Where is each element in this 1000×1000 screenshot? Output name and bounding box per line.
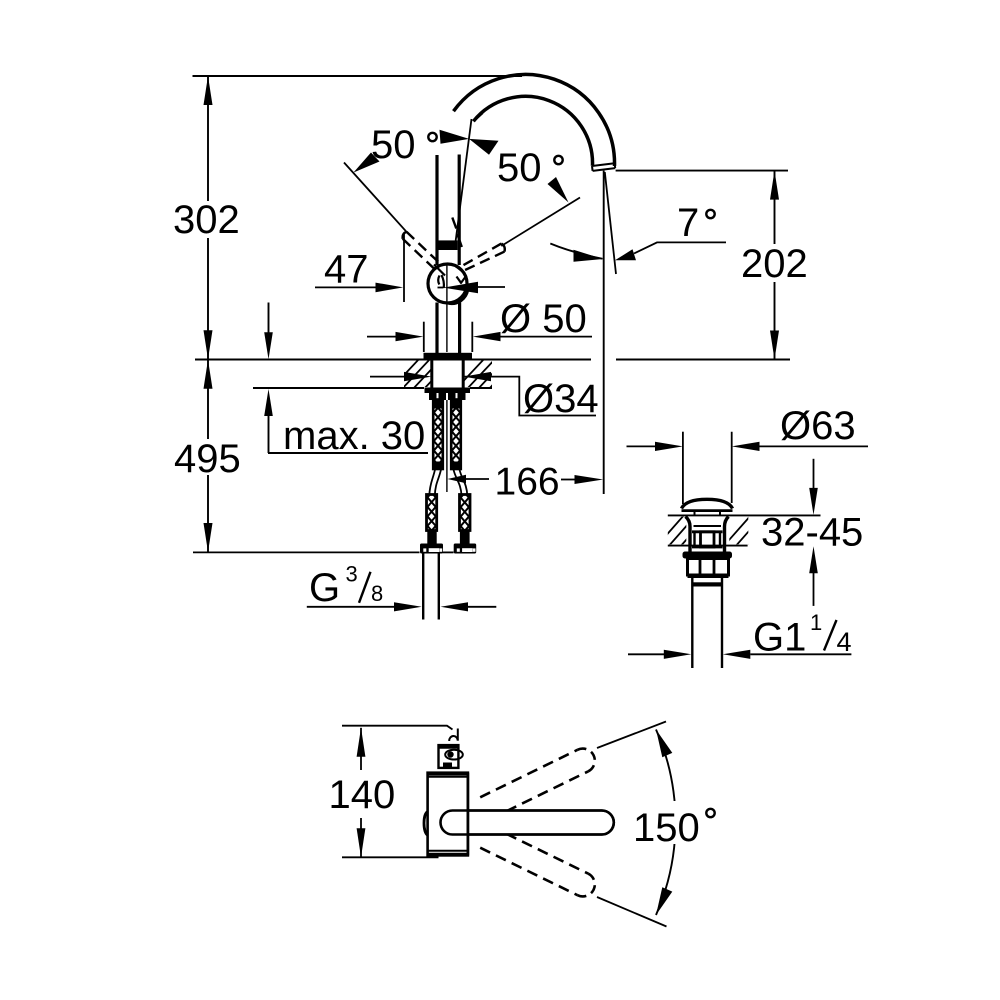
- svg-text:7: 7: [677, 201, 699, 245]
- arrow 495 top at deck: [204, 360, 213, 389]
- PLAN VIEW: [329, 722, 723, 927]
- stream 7deg tilted line: [605, 172, 616, 274]
- dim 140 top ref: [342, 726, 453, 730]
- svg-text:202: 202: [741, 242, 808, 286]
- column body: [435, 303, 438, 354]
- mounting washer: [425, 388, 471, 394]
- braided hose right: [458, 475, 473, 558]
- drain tailpiece: [691, 578, 693, 668]
- shank through deck: [430, 360, 433, 388]
- center line below: [446, 400, 448, 492]
- spout outer arc: [454, 74, 615, 166]
- upper dashed spout: [480, 750, 577, 798]
- svg-text:302: 302: [173, 198, 240, 242]
- label 150deg: [630, 801, 722, 844]
- svg-text:150: 150: [633, 806, 700, 850]
- svg-text:8: 8: [371, 581, 383, 606]
- left bump: [424, 812, 428, 836]
- lower dashed spout: [480, 848, 577, 896]
- small dashes near lever (tilted position hints): [452, 218, 456, 229]
- spout outlet face: [592, 163, 615, 171]
- dim G3/8: [307, 606, 395, 608]
- hose curve right: [454, 470, 462, 496]
- drain locknut: [683, 552, 733, 559]
- lever solid: [435, 155, 438, 265]
- label max.30 underline: [268, 452, 428, 454]
- svg-text:Ø 50: Ø 50: [500, 297, 587, 341]
- fitting nut left: [427, 531, 436, 544]
- dim 140 vertical: [360, 728, 362, 770]
- base plinth: [424, 353, 473, 360]
- swing arc with arrow: [550, 244, 602, 259]
- angle ray right (50deg): [501, 198, 580, 247]
- sink deck lines: [668, 514, 821, 516]
- angle ray left (50deg): [344, 163, 407, 232]
- dim 202 vertical: [774, 171, 776, 244]
- svg-text:1: 1: [810, 610, 822, 635]
- deck top line: [195, 359, 591, 361]
- lever box: [439, 745, 459, 768]
- ball lower-right swoosh: [449, 290, 468, 304]
- svg-text:495: 495: [174, 437, 241, 481]
- ball joint: [428, 264, 467, 303]
- drain cap dome: [682, 499, 733, 508]
- ball interior details: [434, 265, 467, 289]
- deck bottom line: [253, 387, 424, 389]
- svg-text:G: G: [309, 566, 340, 610]
- svg-text:140: 140: [329, 773, 396, 817]
- dim 32-45: [813, 459, 815, 488]
- svg-text:Ø34: Ø34: [523, 377, 599, 421]
- dim D63: [627, 445, 656, 447]
- spout inner arc: [473, 96, 592, 165]
- swing ray lower: [597, 897, 667, 927]
- leader D34: [464, 377, 596, 416]
- svg-text:Ø63: Ø63: [780, 404, 856, 448]
- dim D50 arrows: [367, 336, 396, 338]
- center line: [446, 263, 448, 352]
- svg-text:G1: G1: [753, 616, 806, 660]
- braided hose left: [425, 475, 439, 558]
- svg-text:32-45: 32-45: [761, 511, 863, 555]
- lever dashed right position: [457, 244, 505, 274]
- dim max.30 upper arrow: [268, 303, 270, 337]
- arrow 302 bottom at deck: [204, 330, 213, 359]
- supply tube: [422, 552, 424, 619]
- threaded rod right: [449, 381, 463, 501]
- lever dashed left position: [403, 232, 449, 273]
- bowtie arrows at L2: [440, 130, 470, 144]
- lower dashed end cap: [578, 874, 595, 897]
- lever hook: [449, 736, 458, 741]
- D63 extension lines: [682, 432, 684, 504]
- svg-text:50: 50: [371, 123, 416, 167]
- swing arc 150deg: [656, 730, 676, 916]
- dim G1 1/4: [628, 653, 666, 655]
- thin reference line L2: [456, 119, 472, 242]
- svg-text:max. 30: max. 30: [283, 414, 425, 458]
- hose curve left: [429, 470, 435, 496]
- spout capsule: [441, 811, 614, 835]
- fitting flange right: [454, 544, 477, 554]
- dim 140 bottom ref: [342, 856, 439, 858]
- arrow on right ray: [548, 177, 569, 203]
- svg-text:166: 166: [495, 461, 560, 504]
- lever left tip cap: [403, 232, 407, 239]
- svg-text:3: 3: [346, 561, 358, 586]
- dim 166: [448, 475, 467, 484]
- arrow 495 bottom: [204, 523, 213, 552]
- leader 7deg: [634, 242, 726, 253]
- body rect: [428, 773, 468, 856]
- fitting flange left: [420, 544, 443, 554]
- deck hatching: [390, 358, 518, 390]
- DRAIN DETAIL: [627, 404, 869, 668]
- arrow on left ray: [354, 153, 380, 173]
- swing ray upper: [597, 722, 666, 749]
- dim 202 top ref line: [616, 170, 788, 172]
- dashed spout positions: [480, 750, 588, 895]
- svg-text:50: 50: [497, 146, 542, 190]
- body right wall over capsule: [467, 773, 470, 856]
- mounting nut: [429, 393, 466, 400]
- water stream vertical line: [603, 171, 605, 494]
- lever right tip cap: [501, 244, 504, 252]
- capsule redraw: [441, 811, 614, 835]
- dim D34 arrows: [370, 376, 405, 378]
- dim line 302/495 vertical: [207, 76, 209, 201]
- fitting nut right: [460, 531, 470, 544]
- lever collar: [436, 240, 458, 250]
- svg-text:4: 4: [837, 627, 852, 657]
- bottom reference line 495: [193, 551, 420, 553]
- dim 47: [315, 286, 376, 288]
- upper dashed end cap: [578, 749, 595, 772]
- threaded rod left: [431, 381, 445, 501]
- dim max.30 lower arrow: [268, 413, 270, 453]
- dim 302/495 top reference line: [193, 75, 523, 77]
- dim D50 extension lines: [423, 322, 425, 352]
- svg-text:47: 47: [324, 248, 369, 292]
- arrow 302 top: [204, 76, 213, 105]
- drain body: [686, 517, 691, 553]
